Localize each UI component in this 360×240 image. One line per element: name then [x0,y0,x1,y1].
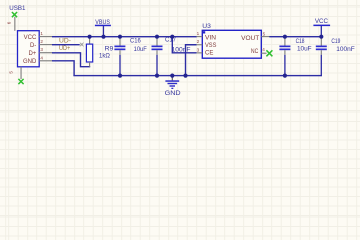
power port VCC bar [313,25,330,27]
svg-text:U3: U3 [202,23,211,30]
USB1 pin 5 (shield, vertical, bottom) [21,67,22,79]
USB1 pin 6 (shield, vertical, top) [14,17,15,31]
wire UD+ from pin 3, down and right to R9 [52,53,90,67]
svg-text:10uF: 10uF [134,46,147,53]
junction dot VBUS rail / C16 [118,35,122,39]
svg-text:R9: R9 [105,46,114,53]
capacitor C19 top lead [321,37,322,45]
svg-text:5: 5 [263,31,266,36]
wire ground rail [73,75,322,76]
junction dot ground rail / C18 [283,74,287,78]
svg-text:2: 2 [40,39,43,44]
svg-text:1kΩ: 1kΩ [99,53,110,60]
U3 pin 1 stub (VIN) [197,36,203,37]
U3 pin 1 marker square [203,31,205,33]
no-ERC marker on UD- wire end [80,43,84,47]
svg-text:D-: D- [30,43,36,49]
svg-text:10uF: 10uF [297,45,312,52]
junction dot VBUS rail / R9 [88,35,92,39]
svg-text:VSS: VSS [205,43,216,49]
svg-text:D+: D+ [28,51,36,57]
connector U SB1 body [18,31,40,67]
svg-text:3: 3 [197,47,200,52]
capacitor C16 bottom lead [119,50,120,55]
svg-text:1: 1 [197,31,200,36]
no-connect X on USB1 pin 5 [18,79,23,84]
no-connect X on USB1 pin 6 [12,12,17,17]
ground symbol bars [165,80,179,89]
U3 pin 4 stub (NC) [261,53,266,54]
svg-text:6: 6 [7,21,12,24]
svg-text:GND: GND [165,90,182,97]
resistor R9 bottom lead [89,62,90,67]
wire VOUT rail to VCC [269,36,322,37]
wire UD- from pin 2 [52,44,80,45]
wire VBUS rail (USB pin1 to U3 VIN) [52,36,197,37]
USB1 pin 1 stub [39,36,52,37]
capacitor C19 plates [316,46,327,48]
svg-text:C18: C18 [296,38,305,45]
U3 pin 5 stub (VOUT) [261,36,269,37]
junction dot VBUS rail / CE riser [170,35,174,39]
power port VBUS stem [103,26,104,36]
capacitor C16 top lead [119,37,120,45]
resistor R9 top lead [89,37,90,44]
svg-text:VCC: VCC [24,35,37,41]
svg-text:3: 3 [40,47,43,52]
junction dot VOUT rail / C18 [283,35,287,39]
svg-text:100nF: 100nF [336,46,355,53]
USB1 pin 4 stub [39,60,52,61]
capacitor C18 top lead [284,37,285,45]
svg-text:4: 4 [262,47,265,52]
svg-text:USB1: USB1 [9,5,26,12]
junction dot VBUS rail / C17 [155,35,159,39]
capacitor C17 plates [152,46,163,48]
junction dot ground rail / C16 [118,74,122,78]
svg-text:UD-: UD- [59,39,71,45]
junction dot VBUS rail / VBUS port [101,35,105,39]
svg-text:4: 4 [40,55,43,60]
capacitor C18 bottom lead [284,50,285,55]
power port VCC stem [321,26,322,36]
resistor R9 body [86,44,92,62]
wire VSS to ground riser [186,45,197,76]
svg-text:C19: C19 [331,38,340,45]
svg-text:2: 2 [197,39,200,44]
capacitor C18 plates [279,46,290,48]
svg-text:CE: CE [205,51,213,57]
capacitor C17 top lead [156,37,157,45]
junction dot ground rail / VSS riser [183,74,187,78]
svg-text:VCC: VCC [315,18,329,25]
U3 pin 2 stub (VSS) [197,44,203,45]
svg-text:C16: C16 [130,37,141,44]
U3 pin 3 stub (CE) [197,52,203,53]
svg-text:VIN: VIN [205,36,216,42]
svg-text:VOUT: VOUT [241,36,260,42]
junction dot ground rail / C17 [155,74,159,78]
svg-text:1: 1 [40,31,43,36]
no-connect X on U3 NC pin [266,50,272,56]
USB1 pin 2 stub [39,44,52,45]
junction dot ground rail / ground symbol [170,74,174,78]
wire CE riser (VIN rail down to CE pin) [172,37,196,53]
capacitor C16 plates [114,46,125,48]
capacitor C17 bottom lead [156,50,157,55]
ground symbol stem [172,76,173,80]
wire GND from pin 4, down to ground rail [52,61,74,76]
junction dot VOUT rail / C19 and VCC [319,35,323,39]
regulator U3 body [202,30,261,58]
USB1 pin 3 stub [39,52,52,53]
power port VBUS bar [95,25,111,27]
svg-text:NC: NC [251,49,259,55]
capacitor C19 bottom lead [321,50,322,55]
svg-text:5: 5 [8,71,13,74]
svg-text:UD+: UD+ [59,46,71,52]
svg-text:GND: GND [23,59,37,65]
